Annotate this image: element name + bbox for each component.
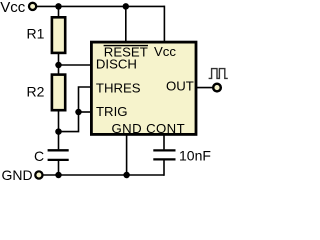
svg-text:Vcc: Vcc (154, 44, 176, 59)
terminal Vcc (29, 3, 36, 10)
wire R1 top (58, 6, 60, 18)
svg-text:TRIG: TRIG (96, 104, 128, 119)
svg-text:Vcc: Vcc (0, 0, 26, 16)
resistor R1 (52, 17, 65, 53)
terminal GND (35, 171, 42, 178)
junction dot TRIG/THRES node (75, 109, 82, 116)
wire capacitor C to ground rail (58, 161, 60, 175)
wire TRIG (79, 111, 92, 113)
wire GND pin drop (126, 134, 128, 175)
junction dot RESET rail (123, 3, 130, 9)
svg-text:C: C (34, 148, 44, 164)
wire top rail Vcc (37, 5, 165, 7)
IC U1 555 timer box (91, 42, 196, 134)
wire OUT (196, 87, 213, 89)
resistor R2 (52, 75, 65, 111)
wire THRES (79, 87, 92, 112)
svg-text:10nF: 10nF (179, 147, 211, 163)
svg-text:R1: R1 (27, 25, 45, 41)
junction dot C/ground rail (55, 172, 62, 179)
wire 10nF to ground rail (163, 160, 165, 175)
wire R1 bottom to R2 top (58, 53, 60, 75)
wire DISCH (59, 64, 92, 66)
wire R2 bottom to capacitor C (58, 110, 60, 149)
svg-text:GND CONT: GND CONT (112, 121, 186, 136)
svg-text:GND: GND (2, 167, 33, 182)
svg-text:R2: R2 (27, 84, 45, 100)
capacitor C (48, 150, 69, 160)
wire TRIG junction down-left to R2/C node (58, 112, 79, 132)
svg-text:THRES: THRES (96, 80, 141, 95)
wire ground rail (43, 174, 164, 176)
wire CONT pin to 10nF (163, 134, 165, 149)
junction dot R1 top rail (55, 3, 62, 9)
junction dot R2/C node (55, 128, 62, 135)
RESET overbar (104, 45, 148, 47)
svg-text:OUT: OUT (166, 79, 194, 94)
capacitor C2 10nF (153, 150, 175, 159)
square wave symbol (209, 69, 228, 79)
junction dot GND pin/ground rail (123, 172, 130, 179)
svg-text:DISCH: DISCH (96, 57, 137, 72)
wire RESET pin drop (125, 6, 127, 42)
wire Vcc pin drop (163, 6, 165, 42)
terminal OUT (213, 84, 221, 92)
junction dot R1/R2/DISCH node (55, 62, 62, 69)
